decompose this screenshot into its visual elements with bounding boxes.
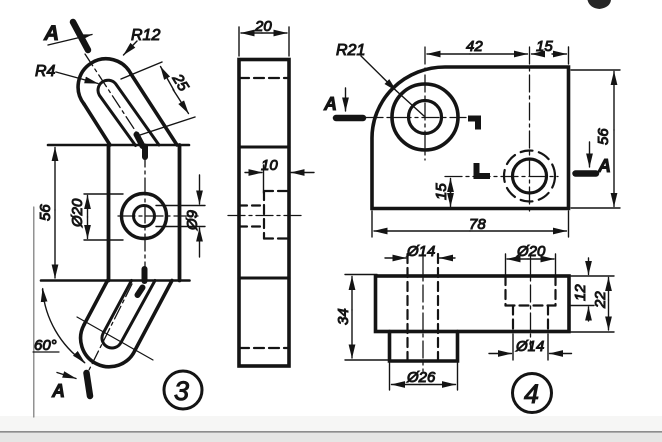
figure number 3 xyxy=(164,371,202,409)
svg-text:20: 20 xyxy=(254,18,272,35)
body bottom edge xyxy=(41,279,190,282)
dim Ø14 bottom arrows xyxy=(489,353,512,355)
svg-text:A: A xyxy=(51,381,65,401)
svg-text:56: 56 xyxy=(37,204,54,221)
left hole inner circle xyxy=(409,101,442,134)
section bend mark 2 xyxy=(477,163,491,176)
body left edge xyxy=(107,145,111,281)
svg-text:78: 78 xyxy=(469,216,486,233)
svg-text:4: 4 xyxy=(524,379,539,409)
hidden hole left edge xyxy=(406,254,408,361)
dim 12 arrows outside xyxy=(588,258,590,275)
section A mark right xyxy=(576,170,597,177)
dim Ø20 extension lines xyxy=(505,254,507,276)
svg-text:R12: R12 xyxy=(131,27,160,44)
side view lower junction line xyxy=(239,276,289,279)
svg-text:15: 15 xyxy=(433,183,450,200)
dim 10 extension line xyxy=(263,165,265,193)
plate outline with rounded corner R21 xyxy=(372,67,569,209)
svg-text:A: A xyxy=(323,94,337,114)
bottom lobe outer arc xyxy=(81,325,135,367)
centre hole inner circle Ø9 xyxy=(134,206,155,227)
leader R21 xyxy=(361,56,397,91)
arrow A left xyxy=(345,88,347,111)
dim 34 extension lines xyxy=(345,274,377,276)
body vertical centerline xyxy=(144,150,146,278)
svg-text:Ø20: Ø20 xyxy=(69,198,86,228)
hidden hole Ø14 right edges xyxy=(512,306,514,332)
bottom arm axis centerline xyxy=(88,284,132,372)
top arm left outer edge xyxy=(84,104,110,145)
side view centerline xyxy=(228,215,301,217)
hidden hole Ø9 lower xyxy=(239,225,264,227)
top arm right outer edge xyxy=(131,74,177,145)
dim 56 line left xyxy=(54,148,56,211)
section bend mark top: vertical xyxy=(142,147,148,158)
dim 78 line xyxy=(374,230,470,232)
hidden hole right edge xyxy=(437,254,439,361)
section bend mark bottom: along arm xyxy=(138,288,143,296)
figure number 4 xyxy=(513,374,552,413)
hole horizontal centerline xyxy=(118,215,202,217)
bottom lobe cross centerline xyxy=(77,317,153,360)
dim Ø14 bottom extension lines xyxy=(512,334,514,360)
dim 10 arrows outside xyxy=(245,172,262,174)
dim Ø20 extension lines xyxy=(84,193,123,195)
svg-text:22: 22 xyxy=(592,291,609,309)
page margin artifact line left xyxy=(33,207,35,417)
page bottom grey band xyxy=(0,416,662,442)
bottom arm left outer edge xyxy=(84,281,108,325)
main body outline xyxy=(376,276,570,332)
svg-text:56: 56 xyxy=(595,128,612,145)
right hole horizontal centerline xyxy=(445,176,558,178)
dim 20 line xyxy=(241,32,262,34)
body right edge xyxy=(178,145,182,281)
hidden line lower slot xyxy=(239,347,289,349)
right dims extension lines xyxy=(571,275,614,277)
section A mark left xyxy=(336,115,363,122)
svg-text:34: 34 xyxy=(335,308,352,325)
section bend mark bottom: vertical xyxy=(142,269,148,281)
left hole centerline front xyxy=(422,257,424,371)
section bend mark 1 xyxy=(468,119,478,130)
top arm axis centerline xyxy=(85,54,146,147)
svg-text:Ø14: Ø14 xyxy=(406,243,435,260)
svg-text:Ø20: Ø20 xyxy=(516,243,546,260)
dim 34 line xyxy=(351,277,353,311)
svg-text:A: A xyxy=(43,22,59,45)
section mark bottom xyxy=(87,373,91,396)
hidden counterbore Ø20 edges xyxy=(504,276,506,306)
hidden counterbore lower edge xyxy=(264,237,289,239)
dim 56 extension lines right xyxy=(571,69,620,71)
bottom slot stadium xyxy=(102,281,155,349)
top slot R4 stadium xyxy=(98,80,159,145)
cropped circle artifact top right xyxy=(588,0,612,9)
section bend mark top: along arm xyxy=(137,135,143,147)
dim 25 extension lines xyxy=(121,62,162,79)
right hole inner circle xyxy=(513,159,547,193)
svg-text:Ø14: Ø14 xyxy=(515,338,544,355)
side view upper junction line xyxy=(239,145,289,148)
centre hole outer circle Ø20 xyxy=(122,194,167,239)
hidden hole Ø9 upper xyxy=(239,204,264,206)
svg-text:15: 15 xyxy=(536,38,553,55)
dim 56 line right xyxy=(613,72,615,131)
svg-text:3: 3 xyxy=(174,376,189,406)
dim Ø20 line front xyxy=(507,258,528,260)
arrow to top section mark xyxy=(48,35,92,46)
hidden line upper slot xyxy=(239,77,289,79)
dim 78 extension lines xyxy=(371,211,373,237)
right hole centerline front xyxy=(530,257,532,350)
svg-text:R4: R4 xyxy=(35,63,56,80)
right hole hidden circle Ø20 xyxy=(504,151,555,202)
left hole outer circle xyxy=(392,84,458,150)
section mark top xyxy=(73,22,88,50)
svg-text:12: 12 xyxy=(572,284,589,301)
dim 22 line xyxy=(608,278,610,301)
body top edge xyxy=(48,144,189,147)
svg-text:Ø26: Ø26 xyxy=(406,369,436,386)
svg-text:Ø9: Ø9 xyxy=(184,209,201,231)
left hole horizontal centerline xyxy=(366,117,466,119)
arrow A right xyxy=(589,142,591,167)
boss outline xyxy=(390,332,458,362)
bottom arm right outer edge xyxy=(135,281,172,351)
svg-text:25: 25 xyxy=(168,70,192,95)
plate right edge extension top xyxy=(568,47,570,64)
dim 15 vertical line xyxy=(450,179,452,196)
dim Ø26 extension lines xyxy=(389,363,391,390)
svg-text:A: A xyxy=(597,156,611,176)
dim 60 arc xyxy=(43,290,85,363)
dim Ø14 top arrows xyxy=(385,257,406,259)
dim Ø26 line xyxy=(392,384,421,386)
dim 42 line xyxy=(427,53,470,55)
hidden counterbore floor xyxy=(506,304,556,306)
leader R4 xyxy=(56,72,98,84)
dim Ø20 line xyxy=(87,196,89,218)
hidden counterbore bottom xyxy=(263,191,265,239)
svg-text:42: 42 xyxy=(466,38,483,55)
dim 25 line xyxy=(161,67,175,91)
svg-text:10: 10 xyxy=(261,157,278,174)
hidden counterbore top edge xyxy=(264,190,289,192)
left hole vertical centerline xyxy=(424,47,426,160)
dim 20 extension lines xyxy=(238,27,240,56)
right hole vertical centerline xyxy=(529,47,531,215)
leader R12 xyxy=(124,41,138,55)
top lobe outer arc R12 xyxy=(78,59,131,104)
dim Ø9 extension lines xyxy=(156,205,205,207)
side view outline xyxy=(239,60,289,367)
dim Ø9 arrows outside xyxy=(199,175,201,204)
dim 15 top arrows xyxy=(532,53,545,55)
arrow to bottom section mark xyxy=(57,373,76,379)
